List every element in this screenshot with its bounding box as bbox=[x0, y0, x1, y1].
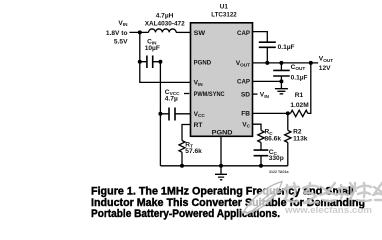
wire PWM/SYNC stub bbox=[184, 93, 189, 95]
ground symbol COUT bbox=[275, 81, 288, 93]
resistor R1 1.02M bbox=[290, 63, 310, 117]
wire CAP2 pin to COUT bottom bbox=[253, 80, 282, 82]
svg-text:R1: R1 bbox=[295, 92, 304, 99]
capacitor CVCC 4.7u bbox=[158, 108, 190, 121]
svg-text:U1: U1 bbox=[220, 4, 229, 11]
svg-text:4.7µH: 4.7µH bbox=[156, 13, 174, 20]
svg-text:86.6k: 86.6k bbox=[265, 135, 282, 142]
capacitor COUT 0.1uF bbox=[273, 63, 290, 84]
svg-text:113k: 113k bbox=[293, 135, 308, 142]
wire VIN input to junction bbox=[129, 31, 148, 33]
wire VIN vertical down and to VIN pin bbox=[140, 32, 191, 82]
inductor L1 4.7uH XAL4030-472 bbox=[149, 29, 177, 32]
capacitor CC 330p bbox=[254, 150, 269, 168]
wire SD stub bbox=[253, 93, 258, 95]
svg-text:12V: 12V bbox=[319, 65, 331, 72]
svg-text:330p: 330p bbox=[269, 155, 284, 162]
svg-text:CAP: CAP bbox=[237, 30, 251, 37]
resistor RT 57.6k bbox=[179, 125, 191, 166]
svg-text:SW: SW bbox=[194, 30, 206, 37]
wire ground bottom rail bbox=[160, 165, 287, 167]
svg-text:57.6k: 57.6k bbox=[185, 148, 202, 155]
svg-text:0.1µF: 0.1µF bbox=[278, 44, 295, 51]
watermark chinese characters bbox=[284, 183, 382, 203]
resistor R2 113k bbox=[285, 113, 291, 165]
svg-text:0.1µF: 0.1µF bbox=[291, 75, 308, 82]
svg-text:PWM/SYNC: PWM/SYNC bbox=[194, 91, 225, 98]
ground symbol main bbox=[215, 166, 227, 180]
wire inductor to SW pin bbox=[176, 31, 190, 33]
watermark leaf logo bbox=[243, 182, 288, 216]
svg-text:10µF: 10µF bbox=[145, 45, 160, 52]
node junction dot VIN bbox=[138, 30, 142, 34]
svg-text:XAL4030-472: XAL4030-472 bbox=[145, 21, 185, 28]
wire PGND pin down bbox=[220, 136, 222, 166]
svg-text:5.5V: 5.5V bbox=[114, 39, 128, 46]
svg-text:LTC3122: LTC3122 bbox=[211, 12, 237, 19]
svg-text:VOUT: VOUT bbox=[319, 56, 333, 63]
wire VOUT rail bbox=[253, 62, 318, 64]
svg-text:3122 TA01a: 3122 TA01a bbox=[269, 170, 290, 174]
svg-text:PGND: PGND bbox=[194, 60, 212, 67]
capacitor CIN 10uF bbox=[138, 56, 163, 69]
svg-text:PGND: PGND bbox=[212, 130, 233, 137]
IC U1 LTC3122 body bbox=[191, 23, 253, 137]
node dot PGND-gnd bbox=[219, 164, 223, 168]
wire ground vertical left rail bbox=[159, 62, 161, 166]
svg-text:1.8V to: 1.8V to bbox=[106, 30, 128, 37]
svg-text:VIN: VIN bbox=[118, 20, 128, 27]
svg-text:COUT: COUT bbox=[291, 64, 306, 71]
capacitor C1 0.1uF flying cap bbox=[253, 32, 276, 63]
resistor RC 86.6k bbox=[258, 130, 264, 150]
svg-text:VIN: VIN bbox=[260, 92, 270, 99]
svg-text:www.elecfans.com: www.elecfans.com bbox=[284, 205, 372, 215]
node dot RT-gnd bbox=[180, 164, 184, 168]
svg-text:FB: FB bbox=[241, 111, 250, 118]
wire VC to RC bbox=[253, 124, 261, 130]
svg-text:4.7µ: 4.7µ bbox=[165, 95, 178, 102]
wire FB to divider bbox=[253, 112, 291, 114]
svg-text:SD: SD bbox=[241, 91, 250, 98]
svg-text:1.02M: 1.02M bbox=[290, 102, 309, 109]
svg-text:CAP: CAP bbox=[237, 79, 251, 86]
svg-text:RT: RT bbox=[194, 122, 203, 129]
